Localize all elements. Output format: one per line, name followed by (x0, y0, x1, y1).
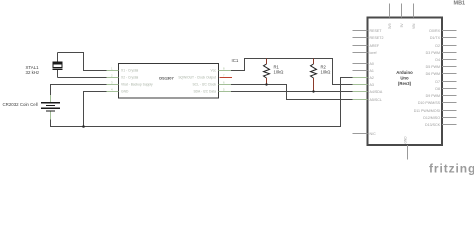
svg-text:D6 PWM: D6 PWM (426, 72, 440, 76)
module Arduino Uno box (368, 18, 443, 146)
Arduino left pin leads unconnected (353, 31, 368, 134)
svg-text:D5 PWM: D5 PWM (426, 65, 440, 69)
svg-text:D11 PWM/MOSI: D11 PWM/MOSI (414, 109, 440, 113)
svg-text:D7: D7 (435, 80, 440, 84)
svg-text:D4: D4 (435, 58, 440, 62)
svg-text:RESET2: RESET2 (370, 36, 384, 40)
svg-text:32 kHz: 32 kHz (26, 70, 40, 75)
svg-text:A3: A3 (370, 83, 374, 87)
svg-text:D3 PWM: D3 PWM (426, 51, 440, 55)
IC left pin leads (107, 71, 119, 92)
svg-text:A1: A1 (370, 69, 374, 73)
label XTAL1 32 kHz (26, 65, 40, 75)
svg-text:fritzing: fritzing (429, 162, 474, 176)
crystal XTAL1 (53, 53, 63, 78)
Arduino left pin labels (370, 29, 384, 136)
svg-text:RESET: RESET (370, 29, 383, 33)
svg-text:ioref: ioref (370, 51, 377, 55)
wire SDA net: IC SDA to Arduino A4 (231, 91, 353, 93)
svg-text:SDA - I2C Data: SDA - I2C Data (193, 90, 216, 94)
svg-text:N/C: N/C (370, 132, 377, 136)
svg-text:Vcc: Vcc (211, 69, 217, 73)
svg-text:D12/MISO: D12/MISO (423, 116, 440, 120)
svg-text:GND: GND (121, 90, 129, 94)
resistor R2 (311, 59, 317, 93)
IC right pin leads (219, 71, 232, 92)
svg-text:Uno: Uno (400, 76, 409, 81)
svg-text:D9 PWM: D9 PWM (426, 94, 440, 98)
svg-text:10kΩ: 10kΩ (321, 69, 331, 74)
svg-text:A5/SCL: A5/SCL (370, 98, 382, 102)
label Arduino Uno (Rev3) (396, 70, 413, 86)
svg-text:VIN: VIN (412, 23, 416, 29)
svg-text:Vbat - Backup Supply: Vbat - Backup Supply (121, 83, 153, 87)
svg-text:MB1: MB1 (454, 1, 466, 7)
wire Vcc rail: IC Vcc to 5V rail to Arduino A3 (231, 59, 353, 85)
svg-text:A4/SDA: A4/SDA (370, 90, 383, 94)
label R2 10k (321, 65, 331, 75)
wire SQW/OUT red stub (220, 77, 233, 79)
svg-text:SQW/OUT - Clock Output: SQW/OUT - Clock Output (178, 76, 216, 80)
svg-text:X2 - Crystal: X2 - Crystal (121, 76, 138, 80)
svg-text:A2: A2 (370, 76, 374, 80)
IC IC1 DS1307 box (119, 64, 219, 99)
wire SCL net: IC SCL to Arduino A5 (231, 85, 353, 100)
svg-text:D0/RX: D0/RX (429, 29, 440, 33)
svg-text:D10 PWM/SS: D10 PWM/SS (418, 101, 441, 105)
Arduino left connected green leads A2 A3 A4 A5 (353, 78, 368, 100)
wire X1 net: crystal top to IC pin X1 (58, 53, 107, 71)
svg-text:D1/TX: D1/TX (430, 36, 441, 40)
svg-text:GND: GND (404, 136, 408, 144)
Arduino right pin labels (414, 29, 441, 127)
Arduino right pin leads (442, 31, 457, 125)
wire ground rail: battery - to Arduino A2 (51, 78, 353, 127)
svg-text:(Rev3): (Rev3) (398, 81, 412, 86)
resistor R1 (264, 59, 270, 86)
label R1 10k (274, 65, 284, 75)
wire X2 net: crystal bottom to IC pin X2 (58, 77, 107, 79)
svg-text:D13/SCK: D13/SCK (425, 123, 441, 127)
svg-text:SCL - I2C Clock: SCL - I2C Clock (192, 83, 216, 87)
Arduino top pin leads (390, 4, 414, 18)
wire GND net: IC GND pin to ground rail (84, 92, 107, 127)
IC pin labels (121, 69, 216, 94)
svg-text:10kΩ: 10kΩ (274, 69, 284, 74)
IC pin numbers (111, 67, 225, 92)
svg-text:3V3: 3V3 (388, 23, 392, 29)
svg-text:X1 - Crystal: X1 - Crystal (121, 69, 138, 73)
Arduino top pin labels (388, 23, 416, 30)
battery CR2032 (41, 95, 60, 120)
svg-text:CR2032 Coin Cell: CR2032 Coin Cell (3, 102, 38, 107)
svg-text:Arduino: Arduino (396, 70, 413, 75)
svg-text:D2: D2 (435, 44, 440, 48)
svg-text:IC1: IC1 (232, 58, 239, 63)
svg-text:AREF: AREF (370, 44, 380, 48)
wire Vbat net: battery + to IC pin Vbat (51, 85, 107, 96)
junction ground/battery (82, 125, 85, 128)
svg-text:A0: A0 (370, 62, 374, 66)
svg-text:DS1307: DS1307 (159, 75, 174, 80)
Arduino bottom pin lead GND (407, 145, 409, 160)
svg-text:D8: D8 (435, 87, 440, 91)
